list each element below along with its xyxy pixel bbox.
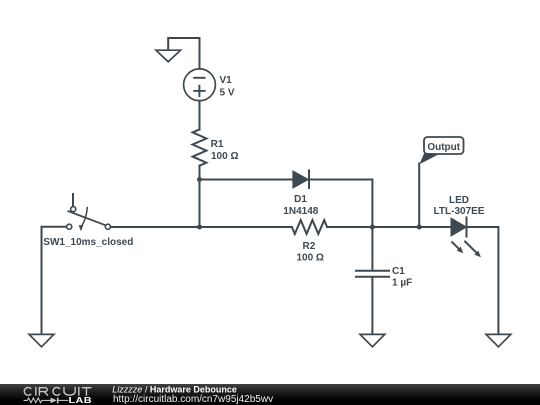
voltage source V1 — [184, 69, 216, 101]
diode D1 — [293, 170, 309, 188]
svg-text:D1: D1 — [294, 194, 307, 205]
LED (LTL-307EE) — [452, 217, 481, 257]
wire: SW1 left terminal to bottom-left ground — [42, 227, 67, 334]
svg-text:R1: R1 — [211, 139, 224, 150]
ground (top, at V1 negative) — [156, 50, 181, 62]
svg-text:LAB: LAB — [69, 396, 92, 405]
svg-text:Output: Output — [427, 142, 460, 153]
wire: R1 to bus node — [199, 166, 201, 227]
wire: V1 negative terminal up and left to top ground — [168, 38, 199, 70]
wire: LED cathode to bottom-right ground — [468, 227, 499, 334]
junction: R1 / D1 branch node — [197, 177, 202, 182]
wire: D1 cathode right and down to bus — [309, 180, 372, 228]
svg-text:Lizzzze / Hardware Debounce: Lizzzze / Hardware Debounce — [112, 384, 237, 394]
ground (bottom left) — [29, 334, 54, 346]
svg-text:LTL-307EE: LTL-307EE — [434, 206, 485, 217]
junction: bus at Output flag — [417, 225, 422, 230]
resistor R2 — [292, 220, 327, 234]
svg-text:100 Ω: 100 Ω — [211, 151, 238, 162]
svg-text:V1: V1 — [220, 75, 233, 86]
junction: bus at R1 — [197, 225, 202, 230]
wire: Output flag to bus — [418, 164, 420, 228]
resistor R1 — [193, 129, 207, 165]
svg-text:LED: LED — [449, 195, 469, 206]
wire: C1 bottom plate to bottom-middle ground — [371, 278, 373, 335]
ground (bottom right) — [486, 334, 511, 346]
wire: bus down to C1 top plate — [371, 227, 373, 270]
ground (bottom middle) — [360, 334, 385, 346]
svg-text:http://circuitlab.com/cn7w95j4: http://circuitlab.com/cn7w95j42b5wv — [113, 394, 273, 405]
footer bar — [0, 384, 540, 405]
svg-text:5 V: 5 V — [220, 88, 235, 99]
wire: V1 positive terminal to R1 — [199, 101, 201, 130]
capacitor C1 — [356, 271, 389, 277]
svg-text:R2: R2 — [303, 241, 316, 252]
CircuitLab logo — [24, 387, 92, 405]
wire: R2 to LED (bus with C1 and Output taps) — [327, 226, 451, 228]
svg-text:1 µF: 1 µF — [392, 278, 412, 289]
svg-text:SW1_10ms_closed: SW1_10ms_closed — [43, 237, 133, 248]
svg-text:C1: C1 — [392, 266, 405, 277]
junction: bus at D1 / C1 branch — [370, 225, 375, 230]
wire: SW1 right terminal to R2 (main bus) — [111, 226, 292, 228]
net flag Output — [419, 137, 463, 164]
wire: node to D1 anode — [200, 179, 294, 181]
svg-text:100 Ω: 100 Ω — [296, 253, 323, 264]
svg-text:1N4148: 1N4148 — [283, 206, 318, 217]
switch SW1 — [67, 194, 111, 231]
